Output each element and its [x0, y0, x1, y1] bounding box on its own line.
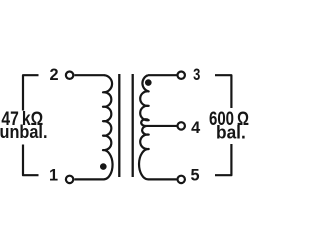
terminal 5	[178, 176, 185, 183]
secondary winding upper section L2a	[140, 75, 149, 126]
wire	[146, 125, 176, 127]
terminal 3	[178, 72, 185, 79]
bracket right	[215, 75, 231, 175]
terminal 1	[66, 176, 73, 183]
terminal 4	[178, 122, 185, 129]
core line right	[132, 74, 134, 177]
svg-text:4: 4	[191, 119, 200, 137]
svg-text:1: 1	[49, 166, 58, 184]
wire	[148, 178, 177, 180]
svg-text:unbal.: unbal.	[0, 121, 48, 142]
core line left	[118, 74, 120, 177]
svg-text:3: 3	[193, 66, 200, 84]
terminal 2	[66, 72, 73, 79]
svg-text:bal.: bal.	[216, 122, 246, 143]
svg-text:2: 2	[49, 66, 58, 84]
primary winding L1	[103, 75, 113, 179]
phase dot primary	[100, 163, 107, 170]
secondary winding lower section L2b	[139, 126, 149, 179]
wire	[148, 74, 177, 76]
wire	[74, 74, 104, 76]
phase dot secondary	[145, 79, 152, 86]
wire	[74, 178, 104, 180]
bracket left	[23, 75, 39, 175]
svg-text:5: 5	[191, 167, 200, 185]
